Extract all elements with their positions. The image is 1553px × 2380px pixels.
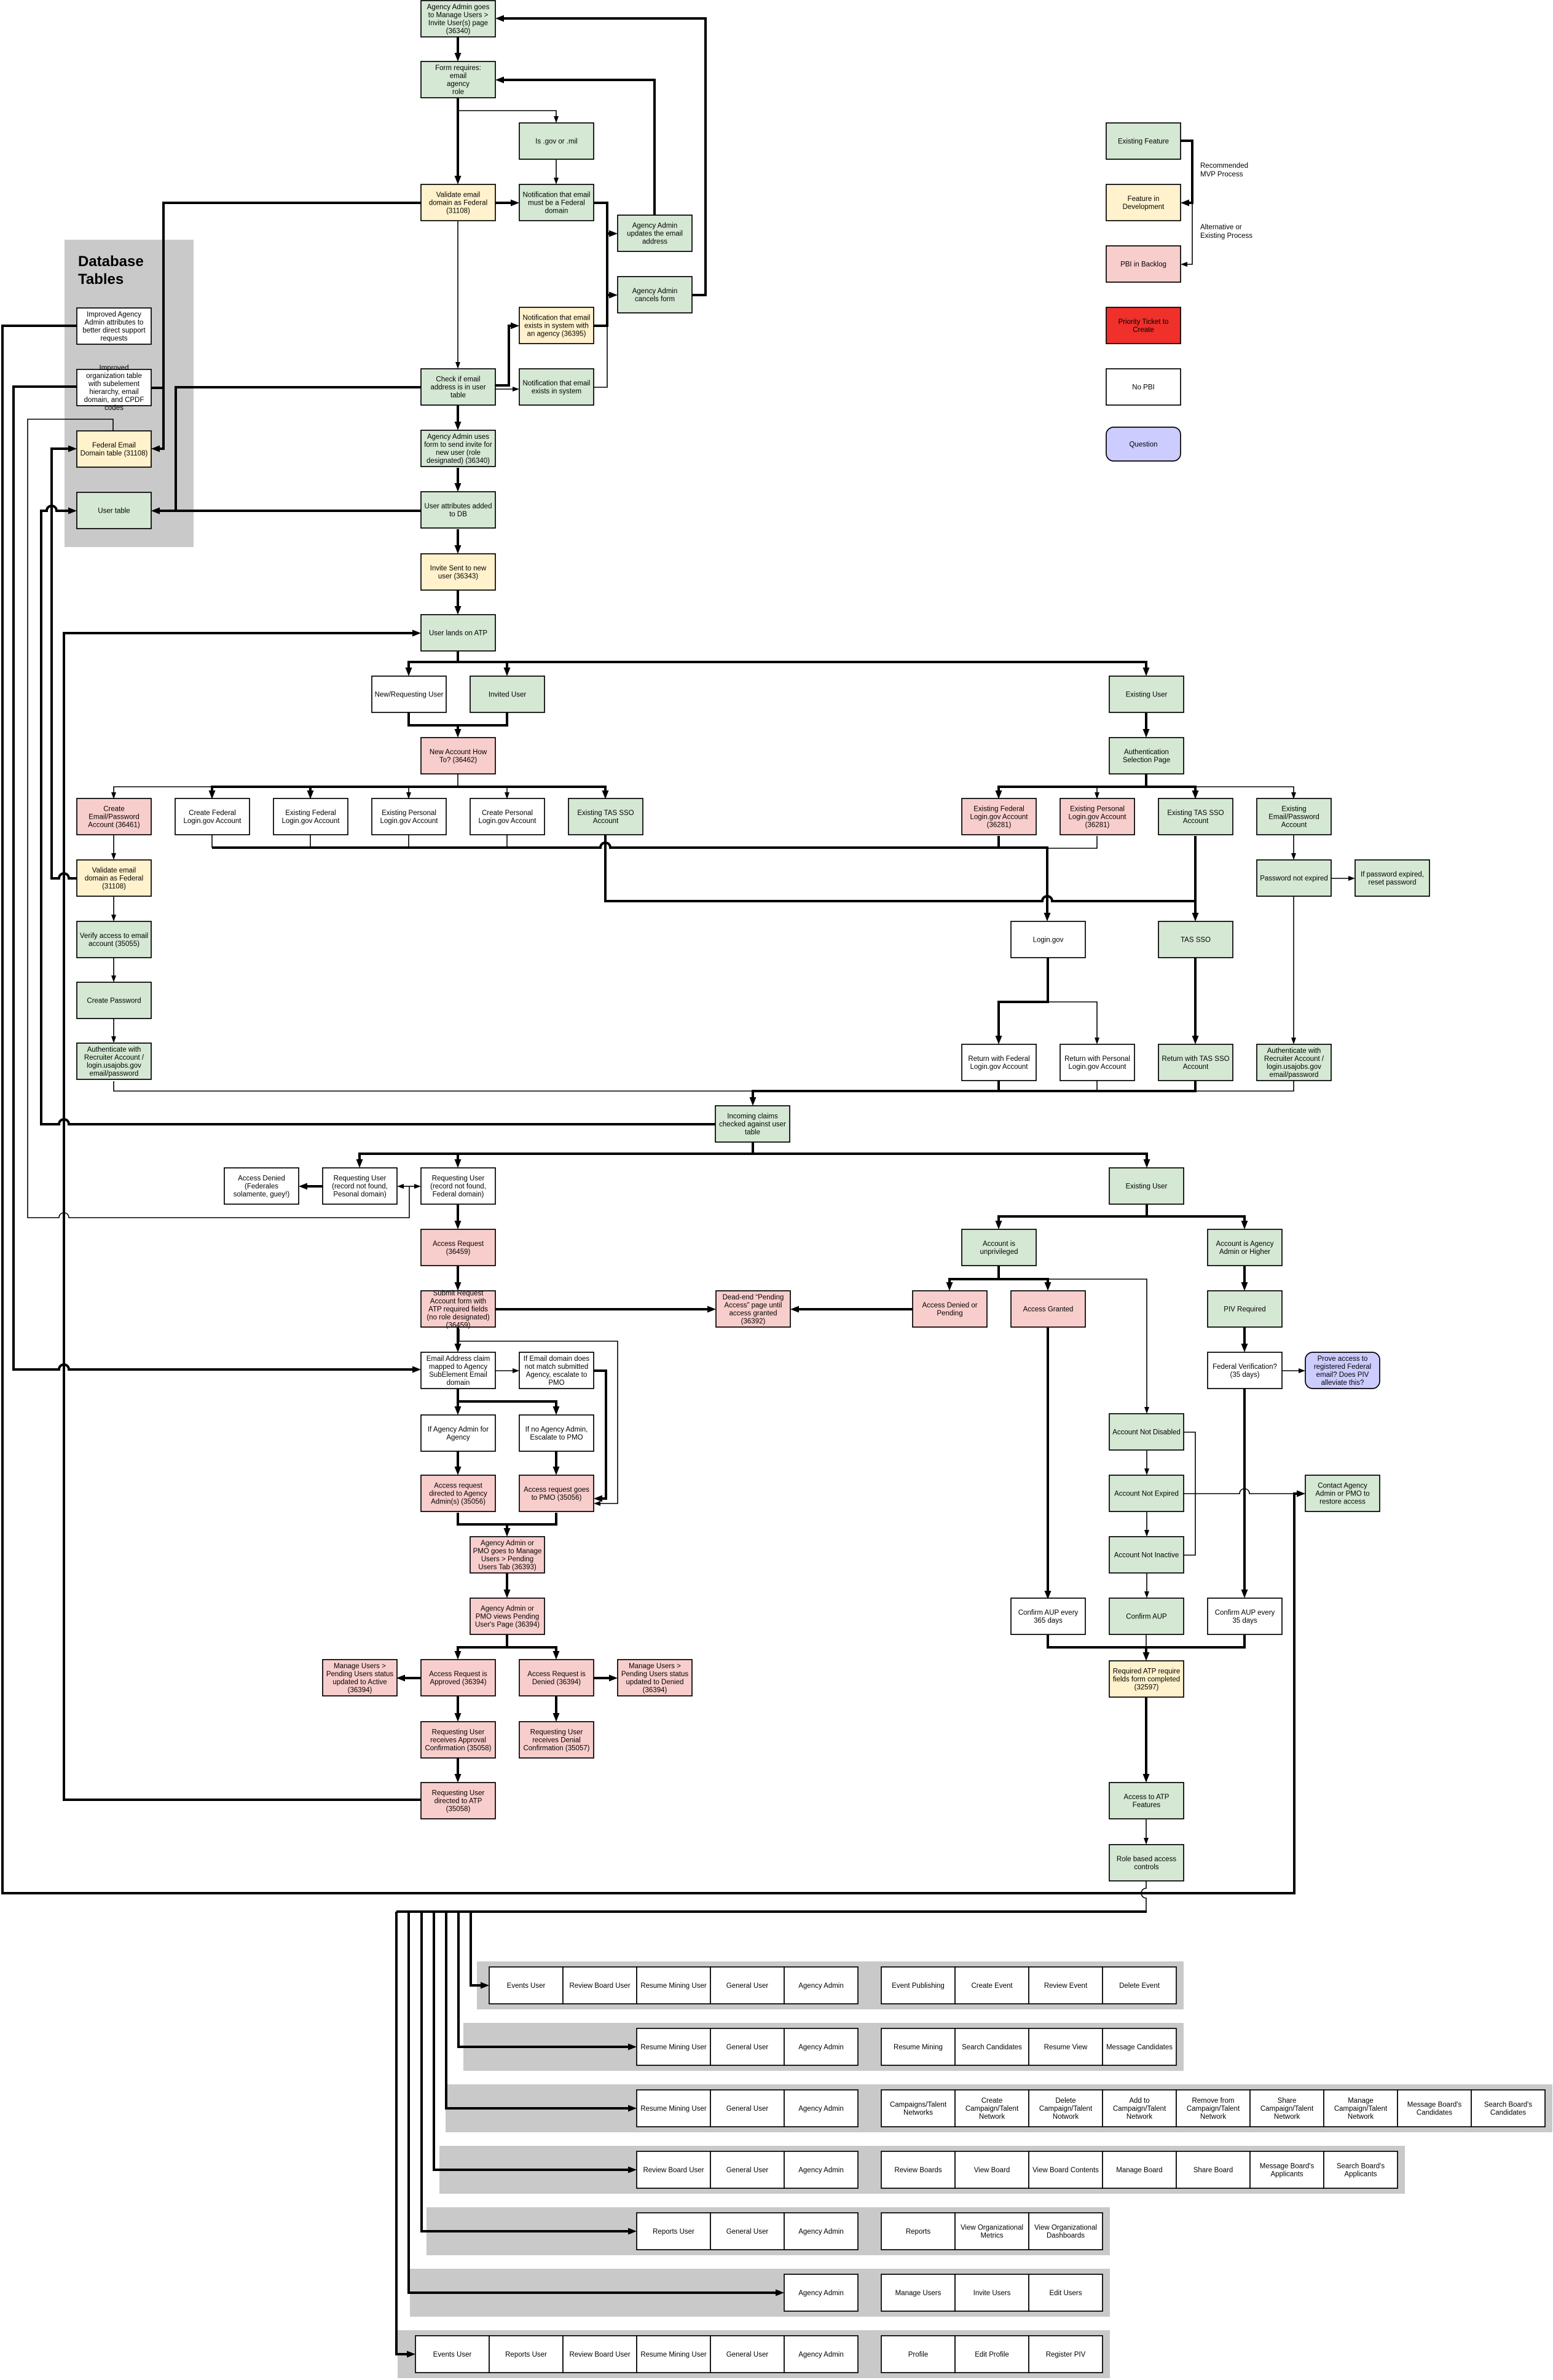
svg-text:solamente, guey!): solamente, guey!) [234, 1191, 290, 1199]
svg-text:Manage Users: Manage Users [895, 2290, 942, 2297]
svg-text:Login.gov Account: Login.gov Account [479, 818, 537, 825]
svg-text:General User: General User [726, 2044, 769, 2051]
svg-text:Account: Account [1281, 822, 1307, 829]
svg-text:Confirm AUP every: Confirm AUP every [1215, 1609, 1275, 1617]
svg-text:Manage Users >: Manage Users > [334, 1663, 386, 1670]
svg-text:Account: Account [1183, 1063, 1209, 1071]
svg-text:role: role [452, 89, 464, 96]
svg-text:Escalate to PMO: Escalate to PMO [530, 1434, 583, 1441]
svg-text:updated to Denied: updated to Denied [626, 1679, 684, 1686]
svg-text:Login.gov Account: Login.gov Account [282, 818, 340, 825]
svg-text:PMO views Pending: PMO views Pending [476, 1614, 540, 1621]
svg-text:Share Board: Share Board [1193, 2167, 1233, 2174]
svg-text:(35058): (35058) [446, 1806, 471, 1813]
svg-text:Create: Create [1133, 326, 1154, 334]
svg-text:login.usajobs.gov: login.usajobs.gov [1267, 1063, 1321, 1071]
svg-text:Federal Email: Federal Email [92, 442, 136, 449]
svg-text:Campaign/Talent: Campaign/Talent [1187, 2105, 1240, 2113]
svg-text:Resume Mining User: Resume Mining User [640, 1982, 707, 1990]
svg-text:(36394): (36394) [643, 1687, 667, 1694]
svg-text:designated) (36340): designated) (36340) [427, 457, 490, 465]
svg-text:Account is Agency: Account is Agency [1216, 1240, 1274, 1248]
svg-text:If Agency Admin for: If Agency Admin for [428, 1426, 489, 1433]
svg-text:Search Candidates: Search Candidates [962, 2044, 1022, 2051]
svg-text:Existing User: Existing User [1126, 1183, 1168, 1191]
svg-text:Campaign/Talent: Campaign/Talent [965, 2105, 1019, 2113]
svg-text:exists in system with: exists in system with [524, 323, 589, 330]
svg-text:If Email domain does: If Email domain does [524, 1355, 590, 1363]
svg-text:General User: General User [726, 2105, 769, 2113]
svg-text:If password expired,: If password expired, [1361, 871, 1424, 878]
svg-text:(36281): (36281) [987, 822, 1012, 829]
svg-text:Invited User: Invited User [489, 692, 527, 699]
svg-text:Agency, escalate to: Agency, escalate to [526, 1371, 588, 1379]
svg-text:Event Publishing: Event Publishing [892, 1982, 945, 1990]
svg-text:Account: Account [593, 818, 619, 825]
svg-text:Return with Federal: Return with Federal [968, 1055, 1029, 1063]
svg-text:Agency: Agency [446, 1434, 470, 1441]
svg-text:Account (36461): Account (36461) [88, 822, 140, 829]
svg-text:Login.gov Account: Login.gov Account [970, 814, 1029, 821]
svg-text:Authentication: Authentication [1124, 749, 1169, 756]
svg-text:Account is: Account is [983, 1240, 1015, 1248]
svg-text:receives Denial: receives Denial [532, 1737, 581, 1744]
svg-text:Resume View: Resume View [1044, 2044, 1088, 2051]
svg-text:35 days: 35 days [1232, 1617, 1257, 1625]
svg-text:Alternative or: Alternative or [1200, 224, 1242, 231]
svg-text:Network: Network [1126, 2113, 1152, 2121]
svg-text:fields form completed: fields form completed [1113, 1676, 1180, 1684]
svg-text:Delete: Delete [1055, 2097, 1075, 2105]
svg-text:unprivileged: unprivileged [980, 1248, 1018, 1256]
svg-text:Validate email: Validate email [92, 867, 136, 875]
svg-text:Access to ATP: Access to ATP [1124, 1794, 1170, 1801]
svg-text:Submit Request: Submit Request [433, 1290, 484, 1298]
svg-text:Existing Feature: Existing Feature [1118, 138, 1169, 146]
svg-text:table: table [745, 1129, 760, 1137]
svg-text:To? (36462): To? (36462) [439, 757, 478, 764]
svg-text:Return with TAS SSO: Return with TAS SSO [1162, 1055, 1229, 1063]
svg-text:Feature in: Feature in [1128, 195, 1160, 203]
svg-text:to DB: to DB [449, 511, 467, 518]
svg-text:controls: controls [1134, 1864, 1159, 1871]
svg-text:Campaign/Talent: Campaign/Talent [1113, 2105, 1166, 2113]
svg-text:not match submitted: not match submitted [525, 1363, 589, 1371]
svg-text:Invite Sent to new: Invite Sent to new [430, 565, 487, 572]
svg-text:User's Page (36394): User's Page (36394) [475, 1621, 540, 1629]
svg-text:PMO: PMO [548, 1379, 564, 1387]
svg-text:email/password: email/password [1270, 1071, 1319, 1079]
svg-text:(36281): (36281) [1085, 822, 1110, 829]
svg-text:Create: Create [981, 2097, 1003, 2105]
svg-text:Existing Process: Existing Process [1200, 232, 1252, 240]
svg-text:email? Does PIV: email? Does PIV [1316, 1371, 1369, 1379]
svg-text:Create Event: Create Event [971, 1982, 1013, 1990]
svg-text:Account: Account [1183, 818, 1209, 825]
svg-text:Priority Ticket to: Priority Ticket to [1119, 318, 1169, 326]
svg-text:Confirm AUP every: Confirm AUP every [1018, 1609, 1079, 1617]
svg-text:Resume Mining User: Resume Mining User [640, 2044, 707, 2051]
svg-text:Network: Network [979, 2113, 1005, 2121]
svg-text:(31108): (31108) [446, 208, 470, 215]
svg-text:Existing Personal: Existing Personal [1070, 806, 1125, 813]
svg-text:TAS SSO: TAS SSO [1181, 937, 1211, 944]
svg-text:access granted: access granted [729, 1310, 777, 1317]
svg-text:Database: Database [78, 253, 144, 270]
svg-text:(36459): (36459) [446, 1322, 471, 1330]
svg-text:General User: General User [726, 1982, 769, 1990]
svg-text:Admin or PMO to: Admin or PMO to [1315, 1491, 1369, 1498]
svg-text:Campaign/Talent: Campaign/Talent [1334, 2105, 1388, 2113]
svg-text:better direct support: better direct support [82, 327, 146, 334]
svg-text:Reports User: Reports User [653, 2228, 694, 2236]
svg-text:Review Board User: Review Board User [569, 1982, 630, 1990]
svg-text:Prove access to: Prove access to [1318, 1355, 1368, 1363]
svg-text:Existing: Existing [1281, 806, 1306, 813]
svg-text:Candidates: Candidates [1417, 2110, 1452, 2117]
svg-text:Create Personal: Create Personal [482, 810, 533, 817]
svg-text:Requesting User: Requesting User [432, 1175, 485, 1183]
svg-text:Resume Mining: Resume Mining [894, 2044, 943, 2051]
svg-text:Tables: Tables [78, 271, 124, 288]
svg-text:Access Denied or: Access Denied or [922, 1302, 977, 1309]
svg-text:PIV Required: PIV Required [1224, 1306, 1265, 1314]
svg-text:Account Not Disabled: Account Not Disabled [1112, 1429, 1181, 1436]
svg-text:Access request goes: Access request goes [524, 1486, 589, 1494]
svg-text:Return with Personal: Return with Personal [1064, 1055, 1130, 1063]
svg-text:Form requires:: Form requires: [435, 65, 481, 72]
svg-text:Development: Development [1123, 203, 1165, 211]
svg-text:Authenticate with: Authenticate with [87, 1046, 141, 1054]
svg-text:Denied (36394): Denied (36394) [532, 1679, 581, 1686]
svg-text:agency: agency [447, 81, 470, 88]
svg-text:Dead-end “Pending: Dead-end “Pending [723, 1294, 784, 1301]
svg-text:Manage Users >: Manage Users > [629, 1663, 681, 1670]
svg-text:Login.gov: Login.gov [1033, 937, 1064, 944]
svg-text:Email/Password: Email/Password [88, 814, 139, 821]
svg-text:Admin or Higher: Admin or Higher [1219, 1248, 1270, 1256]
svg-text:(32597): (32597) [1134, 1684, 1159, 1692]
svg-text:Notification that email: Notification that email [523, 192, 591, 199]
svg-text:user (36343): user (36343) [438, 573, 478, 580]
svg-text:Verify access to email: Verify access to email [80, 932, 148, 940]
svg-text:(36394): (36394) [348, 1687, 372, 1694]
svg-text:Account Not Expired: Account Not Expired [1114, 1491, 1179, 1498]
svg-text:Access Request: Access Request [433, 1240, 484, 1248]
svg-text:PMO goes to Manage: PMO goes to Manage [473, 1548, 542, 1555]
svg-text:Login.gov Account: Login.gov Account [184, 818, 242, 825]
svg-text:Agency Admin: Agency Admin [798, 2105, 844, 2113]
svg-text:Existing User: Existing User [1126, 692, 1168, 699]
svg-text:Share: Share [1278, 2097, 1297, 2105]
svg-text:Access Request is: Access Request is [429, 1671, 487, 1678]
svg-text:Manage: Manage [1348, 2097, 1374, 2105]
svg-text:365 days: 365 days [1034, 1617, 1063, 1625]
svg-text:Requesting User: Requesting User [530, 1729, 583, 1736]
svg-text:Edit Users: Edit Users [1049, 2290, 1082, 2297]
svg-text:Events User: Events User [433, 2351, 472, 2358]
svg-text:Network: Network [1348, 2113, 1374, 2121]
svg-text:(35 days): (35 days) [1230, 1371, 1260, 1379]
svg-text:Required ATP require: Required ATP require [1113, 1668, 1181, 1676]
svg-text:Pesonal domain): Pesonal domain) [333, 1191, 386, 1199]
svg-text:Features: Features [1133, 1802, 1161, 1809]
svg-text:Requesting User: Requesting User [432, 1729, 485, 1736]
svg-text:Recommended: Recommended [1200, 162, 1248, 170]
svg-text:Users > Pending: Users > Pending [481, 1556, 533, 1563]
svg-text:domain as Federal: domain as Federal [85, 875, 143, 883]
svg-text:Events User: Events User [507, 1982, 546, 1990]
svg-text:Message Board's: Message Board's [1407, 2102, 1462, 2109]
svg-text:address: address [642, 238, 667, 246]
svg-text:Notification that email: Notification that email [523, 315, 591, 322]
svg-text:(Federales: (Federales [245, 1183, 278, 1191]
svg-text:Login.gov Account: Login.gov Account [1069, 814, 1127, 821]
svg-text:General User: General User [726, 2351, 769, 2358]
svg-text:New/Requesting User: New/Requesting User [375, 692, 444, 699]
svg-text:Agency Admin goes: Agency Admin goes [427, 4, 490, 11]
svg-text:must be a Federal: must be a Federal [528, 200, 585, 207]
svg-text:domain: domain [545, 208, 568, 215]
svg-text:Is .gov or .mil: Is .gov or .mil [535, 138, 577, 146]
svg-text:User table: User table [98, 508, 130, 515]
svg-text:Improved: Improved [100, 364, 129, 372]
svg-text:address is in user: address is in user [430, 384, 486, 392]
svg-text:Create: Create [103, 806, 125, 813]
svg-text:Search Board's: Search Board's [1337, 2163, 1385, 2170]
svg-text:Recruiter Account /: Recruiter Account / [1264, 1055, 1324, 1063]
svg-text:restore access: restore access [1319, 1499, 1366, 1506]
svg-text:mapped to Agency: mapped to Agency [429, 1363, 488, 1371]
svg-text:registered Federal: registered Federal [1314, 1363, 1371, 1371]
svg-text:(record not found,: (record not found, [430, 1183, 486, 1191]
svg-text:Agency Admin: Agency Admin [632, 288, 678, 295]
svg-text:If no Agency Admin,: If no Agency Admin, [525, 1426, 588, 1433]
svg-text:to PMO (35056): to PMO (35056) [532, 1494, 582, 1502]
svg-text:Pending: Pending [937, 1310, 962, 1317]
svg-text:Review Board User: Review Board User [643, 2167, 704, 2174]
svg-text:Check if email: Check if email [436, 376, 480, 384]
svg-text:Reports User: Reports User [505, 2351, 547, 2358]
svg-text:Message Candidates: Message Candidates [1106, 2044, 1173, 2051]
svg-text:Network: Network [1274, 2113, 1300, 2121]
svg-text:User attributes added: User attributes added [425, 503, 492, 510]
svg-text:Networks: Networks [903, 2110, 933, 2117]
svg-text:Agency Admin: Agency Admin [798, 2228, 844, 2236]
svg-text:(record not found,: (record not found, [332, 1183, 388, 1191]
svg-text:Domain table (31108): Domain table (31108) [81, 450, 148, 457]
svg-text:Invite User(s) page: Invite User(s) page [428, 20, 488, 27]
svg-text:Contact Agency: Contact Agency [1318, 1483, 1367, 1490]
svg-text:Login.gov Account: Login.gov Account [1069, 1063, 1127, 1071]
svg-text:domain: domain [447, 1379, 470, 1387]
svg-text:Campaign/Talent: Campaign/Talent [1260, 2105, 1314, 2113]
svg-text:SubElement Email: SubElement Email [429, 1371, 487, 1379]
svg-text:Notwork: Notwork [1053, 2113, 1079, 2121]
svg-text:Admin(s) (35056): Admin(s) (35056) [431, 1499, 486, 1506]
svg-text:Manage Board: Manage Board [1116, 2167, 1162, 2174]
svg-text:new user (role: new user (role [436, 449, 481, 457]
svg-text:updates the email: updates the email [627, 231, 683, 238]
svg-text:reset password: reset password [1369, 879, 1417, 886]
svg-text:Role based access: Role based access [1117, 1856, 1176, 1863]
svg-text:Review Event: Review Event [1044, 1982, 1088, 1990]
svg-text:Agency Admin: Agency Admin [798, 2290, 844, 2297]
svg-text:(36459): (36459) [446, 1248, 471, 1256]
svg-text:Review Board User: Review Board User [569, 2351, 630, 2358]
svg-text:with subelement: with subelement [88, 380, 140, 388]
svg-text:Message Board's: Message Board's [1260, 2163, 1315, 2170]
svg-text:Requesting User: Requesting User [432, 1790, 485, 1797]
svg-text:exists in system: exists in system [532, 388, 581, 395]
svg-text:Review Boards: Review Boards [894, 2167, 942, 2174]
svg-text:Add to: Add to [1129, 2097, 1149, 2105]
svg-text:Profile: Profile [908, 2351, 929, 2358]
svg-text:Metrics: Metrics [980, 2232, 1003, 2240]
svg-text:Register PIV: Register PIV [1046, 2351, 1086, 2358]
svg-text:Create Password: Create Password [87, 998, 141, 1005]
svg-text:Pending Users status: Pending Users status [621, 1671, 689, 1678]
svg-text:Access” page until: Access” page until [725, 1302, 782, 1309]
svg-text:Applicants: Applicants [1344, 2171, 1377, 2178]
svg-text:Requesting User: Requesting User [334, 1175, 387, 1183]
svg-text:Admin attributes to: Admin attributes to [85, 319, 144, 326]
svg-text:PBI in Backlog: PBI in Backlog [1120, 261, 1166, 269]
svg-text:Email Address claim: Email Address claim [427, 1355, 490, 1363]
svg-text:View Organizational: View Organizational [1034, 2224, 1097, 2232]
svg-text:Confirmation (35058): Confirmation (35058) [425, 1745, 491, 1752]
svg-text:Approved (36394): Approved (36394) [430, 1679, 486, 1686]
svg-text:Incoming claims: Incoming claims [727, 1113, 778, 1121]
svg-text:Existing Personal: Existing Personal [382, 810, 436, 817]
svg-text:domain as Federal: domain as Federal [429, 200, 487, 207]
svg-text:Email/Password: Email/Password [1268, 814, 1319, 821]
svg-text:an agency (36395): an agency (36395) [527, 331, 586, 338]
svg-text:Federal Verification?: Federal Verification? [1213, 1363, 1277, 1371]
svg-text:Candidates: Candidates [1490, 2110, 1526, 2117]
svg-text:Password not expired: Password not expired [1260, 875, 1328, 883]
svg-text:Existing TAS SSO: Existing TAS SSO [577, 810, 634, 817]
svg-text:Question: Question [1129, 441, 1157, 449]
svg-text:receives Approval: receives Approval [430, 1737, 486, 1744]
svg-text:Edit Profile: Edit Profile [975, 2351, 1009, 2358]
svg-text:Improved Agency: Improved Agency [87, 311, 141, 318]
svg-text:Login.gov Account: Login.gov Account [380, 818, 439, 825]
svg-text:Invite Users: Invite Users [973, 2290, 1011, 2297]
svg-text:Agency Admin: Agency Admin [798, 2167, 844, 2174]
svg-text:hierarchy, email: hierarchy, email [89, 388, 138, 396]
svg-text:User lands on ATP: User lands on ATP [429, 630, 487, 637]
svg-text:Access Granted: Access Granted [1023, 1306, 1074, 1314]
svg-text:Agency Admin: Agency Admin [632, 223, 678, 230]
svg-text:directed to Agency: directed to Agency [429, 1491, 487, 1498]
svg-text:Resume Mining User: Resume Mining User [640, 2105, 707, 2113]
svg-text:Agency Admin or: Agency Admin or [481, 1606, 534, 1613]
svg-text:Agency Admin: Agency Admin [798, 1982, 844, 1990]
svg-text:updated to Active: updated to Active [332, 1679, 387, 1686]
svg-text:Access request: Access request [434, 1483, 482, 1490]
svg-text:Account form with: Account form with [430, 1298, 486, 1306]
svg-text:directed to ATP: directed to ATP [434, 1798, 482, 1805]
svg-text:View Board: View Board [974, 2167, 1010, 2174]
svg-text:form to send invite for: form to send invite for [424, 441, 492, 449]
svg-text:Campaign/Talent: Campaign/Talent [1039, 2105, 1093, 2113]
svg-text:Confirmation (35057): Confirmation (35057) [523, 1745, 589, 1752]
svg-text:codes: codes [104, 404, 124, 412]
svg-text:Recruiter Account /: Recruiter Account / [84, 1054, 144, 1062]
svg-text:(31108): (31108) [102, 883, 126, 891]
svg-text:Users Tab (36393): Users Tab (36393) [478, 1564, 537, 1571]
svg-text:table: table [450, 392, 466, 400]
svg-text:Selection Page: Selection Page [1123, 757, 1170, 764]
svg-text:Create Federal: Create Federal [189, 810, 236, 817]
svg-text:Search Board's: Search Board's [1484, 2102, 1533, 2109]
svg-text:account (35055): account (35055) [88, 940, 140, 948]
svg-text:Agency Admin uses: Agency Admin uses [427, 433, 489, 441]
svg-text:email: email [450, 73, 466, 80]
svg-text:No PBI: No PBI [1132, 384, 1154, 392]
svg-text:New Account How: New Account How [430, 749, 487, 756]
svg-text:General User: General User [726, 2228, 769, 2236]
svg-text:Existing Federal: Existing Federal [973, 806, 1024, 813]
svg-text:requests: requests [100, 335, 127, 342]
svg-text:Delete Event: Delete Event [1119, 1982, 1160, 1990]
svg-text:cancels form: cancels form [635, 296, 675, 303]
svg-text:Reports: Reports [906, 2228, 931, 2236]
svg-text:Federal domain): Federal domain) [433, 1191, 484, 1199]
svg-text:domain, and CPDF: domain, and CPDF [84, 396, 144, 404]
svg-text:Pending Users status: Pending Users status [326, 1671, 394, 1678]
svg-text:organization table: organization table [86, 372, 142, 380]
svg-text:(36340): (36340) [446, 28, 471, 35]
svg-text:Confirm AUP: Confirm AUP [1126, 1614, 1167, 1621]
svg-text:ATP required fields: ATP required fields [428, 1306, 488, 1314]
svg-text:(36392): (36392) [741, 1318, 766, 1325]
svg-text:Existing TAS SSO: Existing TAS SSO [1167, 810, 1224, 817]
svg-text:Resume Mining User: Resume Mining User [640, 2351, 707, 2358]
svg-text:View Organizational: View Organizational [961, 2224, 1023, 2232]
svg-text:Login.gov Account: Login.gov Account [970, 1063, 1029, 1071]
svg-text:Dashboards: Dashboards [1047, 2232, 1085, 2240]
svg-text:Remove from: Remove from [1192, 2097, 1234, 2105]
svg-text:Existing Federal: Existing Federal [285, 810, 336, 817]
svg-text:Agency Admin: Agency Admin [798, 2044, 844, 2051]
svg-text:Campaigns/Talent: Campaigns/Talent [890, 2102, 947, 2109]
svg-text:checked against user: checked against user [719, 1121, 786, 1129]
svg-text:Authenticate with: Authenticate with [1267, 1047, 1321, 1055]
svg-text:Notification that email: Notification that email [523, 380, 591, 387]
svg-text:View Board Contents: View Board Contents [1032, 2167, 1099, 2174]
svg-text:Agency Admin or: Agency Admin or [481, 1540, 534, 1547]
svg-text:Validate email: Validate email [436, 192, 480, 199]
svg-text:alleviate this?: alleviate this? [1321, 1379, 1364, 1387]
svg-text:MVP Process: MVP Process [1200, 171, 1243, 178]
svg-text:Access Denied: Access Denied [238, 1175, 285, 1183]
svg-text:email/password: email/password [90, 1070, 139, 1078]
svg-text:Account Not Inactive: Account Not Inactive [1114, 1552, 1179, 1559]
svg-text:login.usajobs.gov: login.usajobs.gov [87, 1062, 141, 1070]
svg-text:Network: Network [1200, 2113, 1226, 2121]
svg-text:(no role designated): (no role designated) [427, 1314, 489, 1322]
svg-text:Access Request is: Access Request is [527, 1671, 586, 1678]
svg-text:to Manage Users >: to Manage Users > [428, 12, 489, 19]
svg-text:Applicants: Applicants [1270, 2171, 1303, 2178]
svg-text:General User: General User [726, 2167, 769, 2174]
svg-text:Agency Admin: Agency Admin [798, 2351, 844, 2358]
